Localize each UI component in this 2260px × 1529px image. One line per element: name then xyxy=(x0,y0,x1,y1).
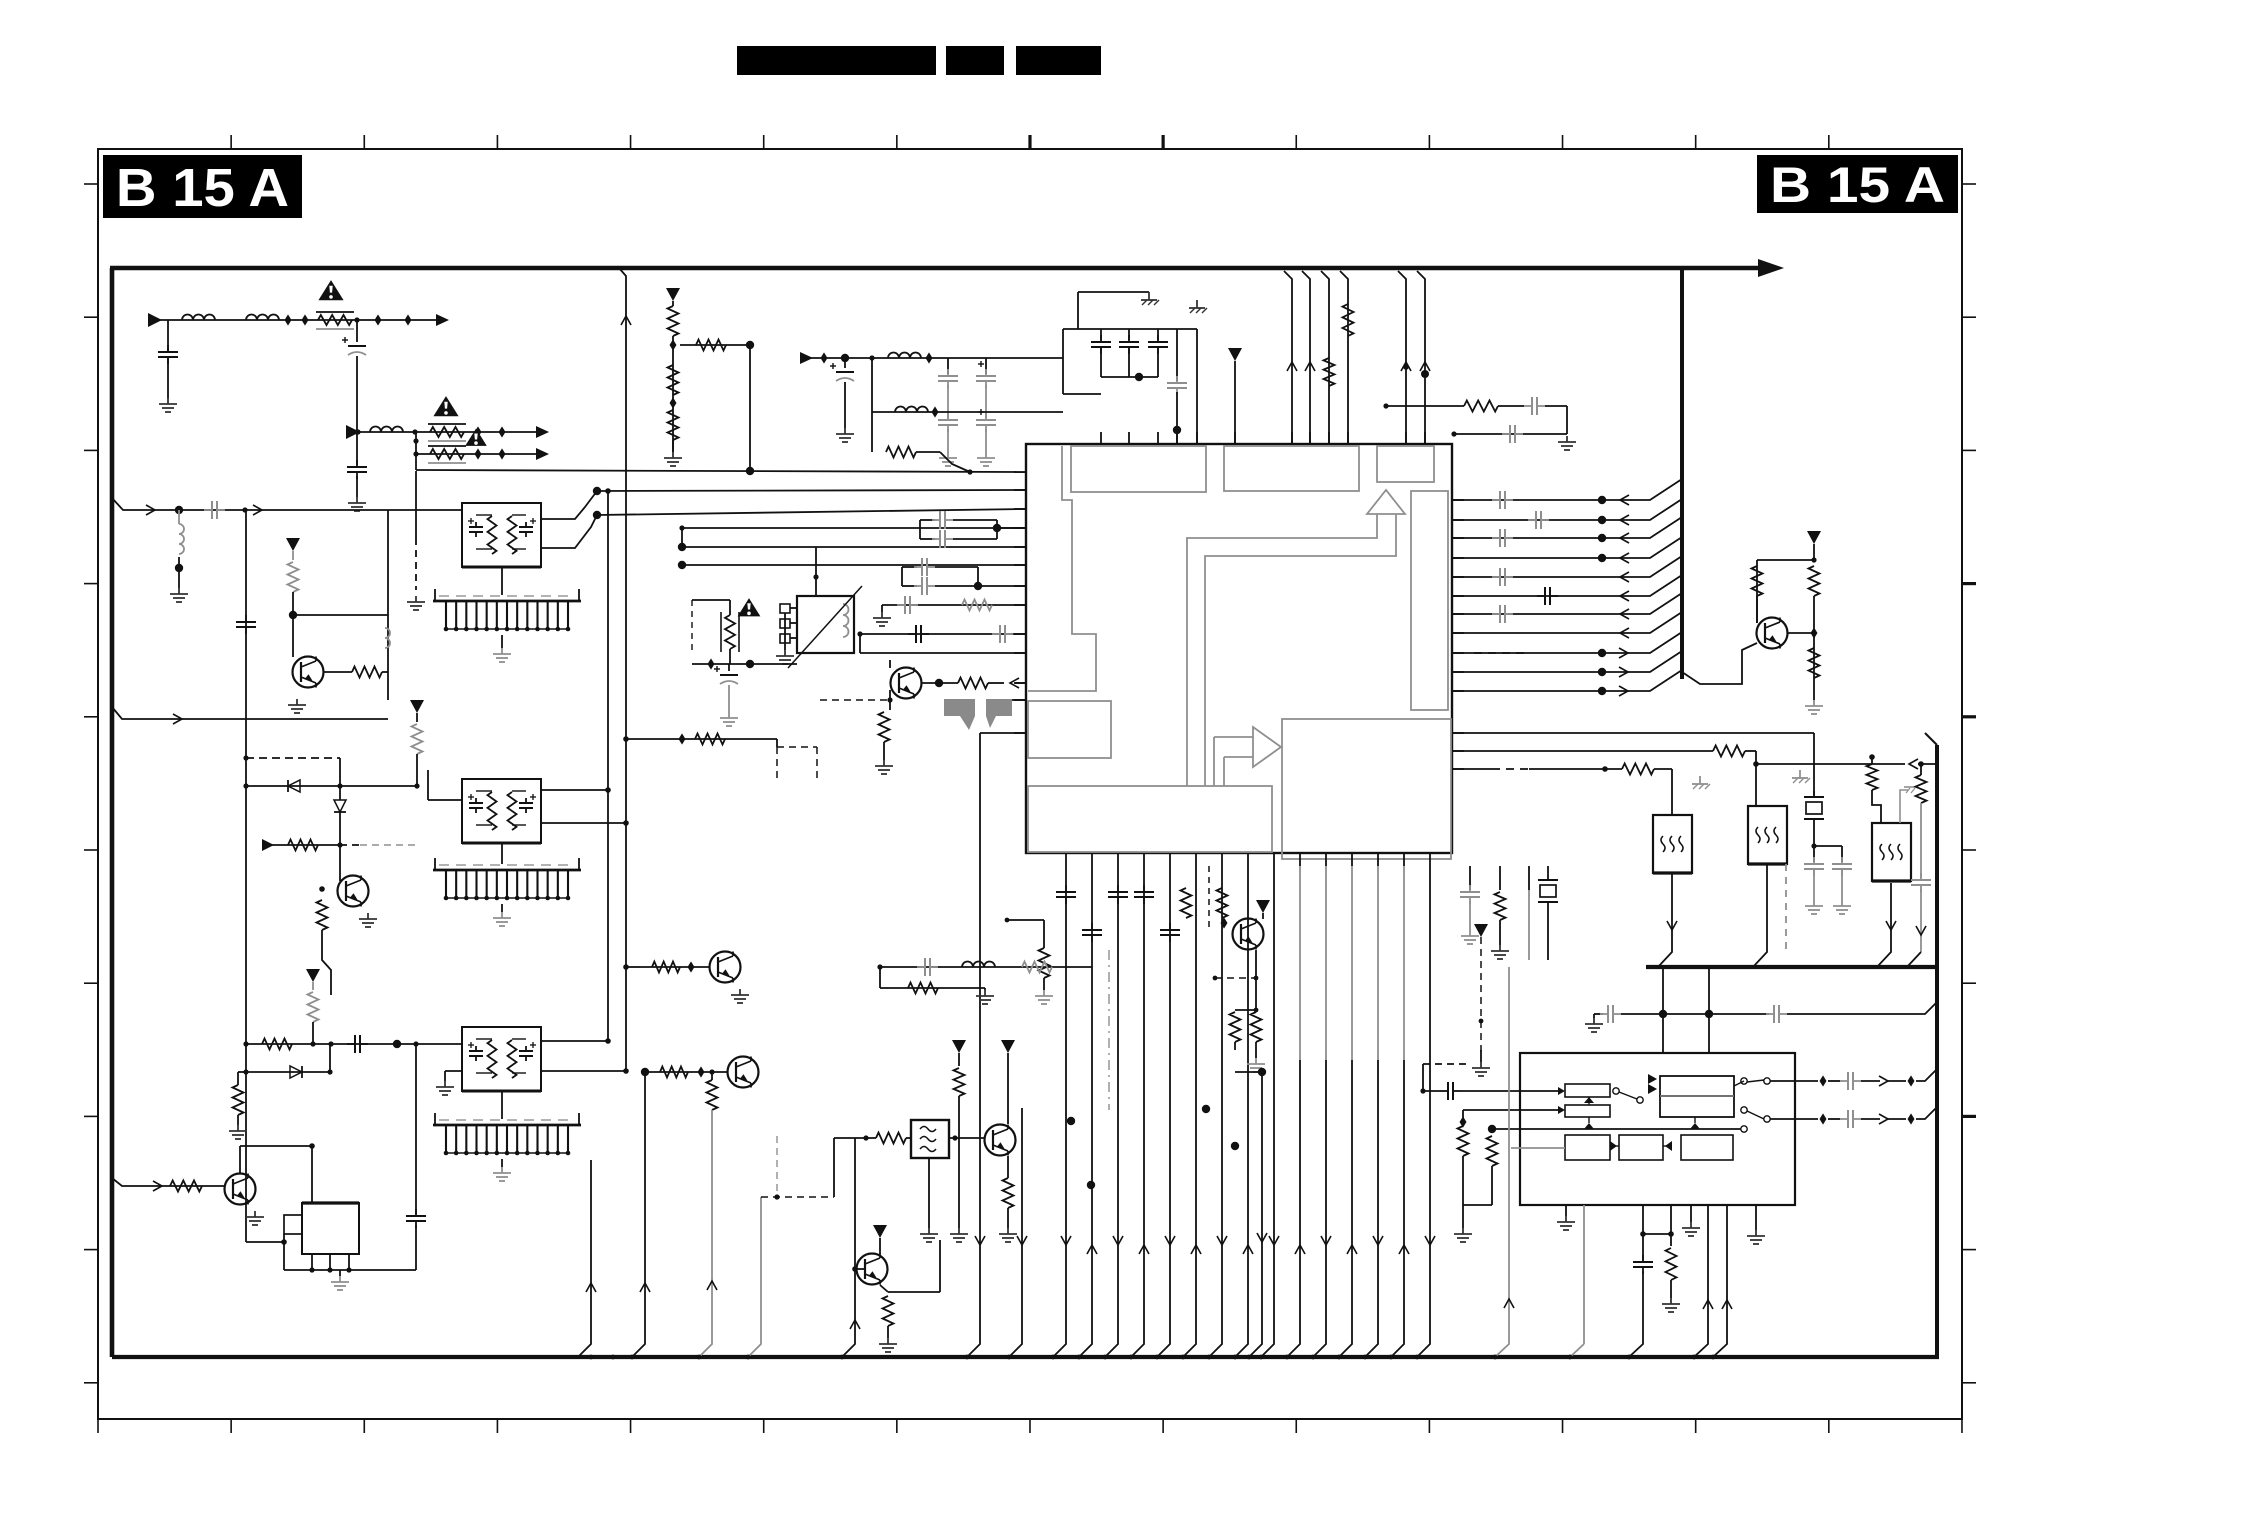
wire xyxy=(728,685,730,712)
wire xyxy=(1610,1145,1619,1147)
wire xyxy=(872,411,1063,413)
signal arrow xyxy=(153,1181,162,1191)
wire xyxy=(329,1254,331,1270)
wire xyxy=(476,790,492,792)
safety warning triangle xyxy=(465,429,487,446)
junction xyxy=(709,1069,714,1074)
wire xyxy=(860,652,1026,654)
ferrite bead junction xyxy=(1221,917,1228,928)
signal arrow xyxy=(975,1236,985,1245)
junction xyxy=(1077,1355,1082,1360)
wire xyxy=(696,340,726,351)
wire xyxy=(1452,517,1682,538)
wire xyxy=(1528,890,1530,960)
wire xyxy=(888,1291,940,1293)
junction xyxy=(327,1069,332,1074)
capacitor C50 xyxy=(914,585,922,587)
signal arrow xyxy=(1879,1114,1888,1124)
signal arrow xyxy=(1619,667,1628,677)
junction xyxy=(328,1041,333,1046)
wire xyxy=(1321,271,1329,444)
transistor Q2 xyxy=(1233,919,1264,950)
wire xyxy=(895,407,928,412)
wire xyxy=(1469,901,1471,930)
wire xyxy=(1452,768,1492,770)
wire xyxy=(790,622,797,624)
fusible resistor R5 xyxy=(430,449,464,459)
junction node xyxy=(289,611,297,619)
ferrite bead junction xyxy=(1820,1113,1827,1124)
wire xyxy=(1906,788,1910,793)
wire xyxy=(1770,1080,1818,1082)
capacitor C18 xyxy=(1492,576,1500,578)
wire xyxy=(1377,866,1379,1060)
wire xyxy=(695,734,725,745)
ferrite bead junction xyxy=(1811,627,1818,638)
ferrite bead junction xyxy=(1460,1116,1467,1127)
ferrite bead junction xyxy=(670,397,677,408)
wire xyxy=(815,547,817,577)
wire xyxy=(985,429,987,452)
wire xyxy=(939,1240,941,1292)
wire xyxy=(292,592,294,657)
wire xyxy=(935,585,978,587)
wire xyxy=(844,358,846,368)
wire xyxy=(1492,768,1529,770)
wire xyxy=(1492,1128,1741,1130)
wire xyxy=(1867,764,1878,790)
junction node xyxy=(1488,1125,1496,1133)
wire xyxy=(879,1238,881,1254)
capacitor C12 xyxy=(1176,376,1178,383)
wire xyxy=(1925,733,1937,745)
junction xyxy=(679,525,684,530)
signal arrow xyxy=(1620,572,1629,582)
wire xyxy=(1788,632,1814,634)
wire xyxy=(692,599,730,601)
junction xyxy=(243,1041,248,1046)
wire xyxy=(1208,866,1210,930)
capacitor C44 xyxy=(347,1043,355,1045)
connector comb J1 xyxy=(439,595,575,597)
junction xyxy=(1213,976,1218,981)
junction xyxy=(1129,1355,1134,1360)
wire xyxy=(1566,406,1568,434)
junction xyxy=(813,574,818,579)
capacitor C16 xyxy=(1528,519,1536,521)
capacitor C42 xyxy=(525,1046,527,1051)
wire xyxy=(1053,866,1066,1357)
signal arrow xyxy=(850,1320,860,1329)
ferrite bead junction xyxy=(926,352,933,363)
wire xyxy=(578,1160,591,1357)
wire xyxy=(1235,1071,1262,1073)
wire xyxy=(1666,1248,1677,1280)
wire xyxy=(233,1085,244,1115)
wire xyxy=(640,966,710,968)
signal arrow xyxy=(1321,1236,1331,1245)
box xyxy=(302,1203,359,1254)
wire xyxy=(1209,866,1222,1357)
junction xyxy=(863,1135,868,1140)
junction node xyxy=(746,341,754,349)
wire xyxy=(262,1039,292,1050)
wire xyxy=(112,1355,1939,1359)
wire xyxy=(322,930,331,995)
wire xyxy=(1299,866,1301,1060)
wire xyxy=(1529,768,1622,770)
ground xyxy=(178,588,180,594)
wire xyxy=(729,649,731,664)
wire xyxy=(1682,266,1760,271)
signal arrow xyxy=(1620,609,1629,619)
wire xyxy=(626,738,777,740)
wire xyxy=(711,1072,713,1080)
wire xyxy=(1708,1014,1710,1053)
junction xyxy=(1811,557,1816,562)
wire xyxy=(692,663,797,665)
wire xyxy=(1007,919,1044,921)
wire xyxy=(682,546,1026,548)
wire xyxy=(512,514,526,516)
ground xyxy=(415,596,417,602)
junction xyxy=(1207,1355,1212,1360)
ceramic resonator U3 xyxy=(1872,823,1911,881)
wire xyxy=(170,1181,202,1192)
wire xyxy=(1230,1012,1241,1042)
junction xyxy=(1259,1355,1264,1360)
junction xyxy=(1337,1355,1342,1360)
arrow xyxy=(148,313,162,327)
wire xyxy=(978,363,984,365)
wire xyxy=(541,822,626,824)
wire xyxy=(978,411,984,413)
wire xyxy=(597,509,1026,515)
wire xyxy=(1462,1110,1464,1122)
junction node xyxy=(993,524,1001,532)
wire xyxy=(1452,651,1682,672)
junction xyxy=(310,1041,315,1046)
wire xyxy=(1249,1072,1262,1357)
wire xyxy=(112,707,388,719)
wire xyxy=(238,1071,246,1073)
wire xyxy=(237,1115,239,1125)
wire xyxy=(1670,1205,1672,1246)
wire xyxy=(962,600,992,611)
arrow xyxy=(262,839,274,851)
wire xyxy=(1452,556,1682,577)
junction node xyxy=(1258,1068,1266,1076)
junction xyxy=(605,1038,611,1044)
wire xyxy=(1753,864,1767,967)
junction xyxy=(697,1355,702,1360)
wire xyxy=(1108,950,1110,1110)
wire xyxy=(512,824,526,826)
capacitor C51 xyxy=(897,604,905,606)
transistor Q3 xyxy=(293,657,324,688)
ground xyxy=(784,650,786,656)
wire xyxy=(1007,1208,1009,1228)
ground xyxy=(1593,1018,1595,1024)
wire xyxy=(788,586,862,668)
wire xyxy=(1861,1080,1880,1082)
wire xyxy=(887,1326,889,1338)
wire xyxy=(880,987,985,989)
wire xyxy=(680,344,750,346)
wire xyxy=(178,510,180,524)
junction node xyxy=(1598,649,1606,657)
wire xyxy=(777,746,817,748)
ground xyxy=(444,1081,446,1087)
wire xyxy=(1458,1126,1469,1156)
wire xyxy=(1646,965,1937,969)
wire xyxy=(876,1133,906,1144)
junction xyxy=(623,1068,629,1074)
wire xyxy=(428,799,462,801)
capacitor C49 xyxy=(914,566,922,568)
wire xyxy=(541,491,597,519)
junction xyxy=(281,1239,287,1245)
ground xyxy=(1670,1298,1672,1304)
wire xyxy=(947,358,949,374)
wire xyxy=(360,844,417,846)
wire xyxy=(980,361,982,367)
wire xyxy=(239,1146,241,1173)
ferrite bead junction xyxy=(375,314,382,325)
wire xyxy=(1235,866,1248,1357)
wire xyxy=(265,844,340,846)
junction xyxy=(1005,918,1010,923)
wire xyxy=(1491,1166,1493,1205)
wire xyxy=(1452,670,1682,691)
wire xyxy=(1255,950,1257,1010)
wire xyxy=(415,1225,417,1270)
wire xyxy=(1452,750,1713,752)
ground xyxy=(1480,1062,1482,1068)
wire xyxy=(1658,873,1672,967)
wire xyxy=(339,1270,341,1276)
signal arrow xyxy=(1620,553,1629,563)
wire xyxy=(816,747,818,780)
ground xyxy=(1469,930,1471,936)
signal arrow xyxy=(1269,1236,1279,1245)
wire xyxy=(1403,866,1405,1060)
ground xyxy=(339,1276,341,1282)
wire xyxy=(1593,1014,1595,1018)
wire xyxy=(1480,937,1482,1052)
junction xyxy=(1753,761,1759,767)
signal arrow xyxy=(1373,1236,1383,1245)
junction xyxy=(1918,761,1924,767)
signal arrow xyxy=(1257,1233,1267,1242)
capacitor C13 xyxy=(1524,405,1532,407)
wire xyxy=(1234,1042,1236,1050)
wire xyxy=(1747,1111,1764,1119)
wire xyxy=(476,1072,492,1074)
junction xyxy=(327,1267,332,1272)
junction xyxy=(337,842,342,847)
wire xyxy=(1545,405,1567,407)
wire xyxy=(245,510,247,1242)
fusible resistor R3 xyxy=(430,427,464,437)
junction xyxy=(1602,766,1608,772)
ground xyxy=(501,1167,503,1173)
polarized capacitor C2 xyxy=(348,345,366,347)
wire xyxy=(339,758,341,786)
wire xyxy=(980,732,1026,734)
junction xyxy=(1383,403,1388,408)
box xyxy=(1565,1084,1610,1097)
ground xyxy=(984,990,986,996)
wire xyxy=(1015,682,1026,684)
ground xyxy=(356,497,358,503)
signal arrow xyxy=(1916,926,1926,935)
wire xyxy=(928,1158,930,1228)
ground xyxy=(881,612,883,618)
wire xyxy=(387,510,389,615)
page code label B 15 A xyxy=(1757,155,1958,213)
wire xyxy=(784,613,786,650)
ground xyxy=(1755,1230,1757,1236)
wire xyxy=(871,358,873,412)
wire xyxy=(1422,1064,1424,1091)
wire xyxy=(1662,1014,1664,1053)
capacitor C10 xyxy=(1128,335,1130,342)
wire xyxy=(997,527,1026,529)
wire xyxy=(501,843,503,864)
wire xyxy=(1012,699,1026,701)
wire xyxy=(1351,866,1353,1060)
wire xyxy=(882,604,1026,606)
wire xyxy=(729,600,731,615)
wire xyxy=(387,615,389,700)
ground xyxy=(844,428,846,434)
wire xyxy=(1680,266,1684,679)
wire xyxy=(1181,888,1192,918)
wire xyxy=(953,538,997,540)
wire xyxy=(871,412,873,452)
signal arrow xyxy=(173,714,182,724)
arrow xyxy=(536,448,549,460)
wire xyxy=(1594,1013,1603,1015)
ground xyxy=(985,452,987,458)
wire xyxy=(501,635,503,648)
wire xyxy=(626,966,640,968)
wire xyxy=(348,1254,350,1270)
wire xyxy=(682,564,1026,566)
wire xyxy=(1498,405,1524,407)
wire xyxy=(947,429,949,452)
wire xyxy=(776,747,778,780)
transistor Q9 xyxy=(985,1125,1016,1156)
wire xyxy=(619,268,626,1071)
wire xyxy=(530,520,536,522)
wire xyxy=(1813,869,1815,900)
signal arrow xyxy=(1620,628,1629,638)
wire xyxy=(1217,888,1228,918)
supply rail marker xyxy=(410,700,424,713)
capacitor C45 xyxy=(415,1209,417,1216)
junction node xyxy=(678,543,686,551)
box xyxy=(797,596,854,653)
junction xyxy=(746,1355,751,1360)
wire xyxy=(1713,1205,1727,1357)
wire xyxy=(1756,618,1758,623)
wire xyxy=(356,356,358,465)
wire xyxy=(416,713,418,722)
junction xyxy=(623,964,629,970)
wire xyxy=(1340,271,1348,444)
supply rail marker xyxy=(1228,348,1242,361)
wire xyxy=(468,520,474,522)
wire xyxy=(1452,575,1682,596)
wire xyxy=(820,699,890,701)
ground xyxy=(1566,436,1568,442)
signal arrow xyxy=(1347,1245,1357,1254)
wire xyxy=(648,1071,728,1073)
wire xyxy=(1588,1097,1590,1105)
ferrite bead junction xyxy=(302,314,309,325)
junction node xyxy=(678,561,686,569)
box xyxy=(1565,1105,1610,1117)
wire xyxy=(1813,733,1815,795)
wire xyxy=(352,667,382,678)
wire xyxy=(317,900,328,930)
wire xyxy=(416,754,418,786)
wire xyxy=(246,1043,462,1045)
wire xyxy=(935,566,978,568)
wire xyxy=(1454,433,1567,435)
junction node xyxy=(1087,1181,1095,1189)
wire xyxy=(1255,1042,1257,1058)
junction xyxy=(1869,754,1875,760)
junction xyxy=(242,507,247,512)
wire xyxy=(1063,328,1197,330)
wire xyxy=(476,824,492,826)
wire xyxy=(1039,948,1050,978)
junction xyxy=(414,783,419,788)
transistor Q7 xyxy=(710,952,741,983)
wire xyxy=(1452,479,1682,500)
wire xyxy=(1671,769,1673,815)
wire xyxy=(906,1137,911,1139)
wire xyxy=(985,385,987,418)
wire xyxy=(1417,866,1430,1357)
wire xyxy=(902,566,917,568)
wire xyxy=(356,320,358,342)
wire xyxy=(1423,1063,1470,1065)
IF filter module U4 xyxy=(462,503,541,567)
junction node xyxy=(1705,1010,1713,1018)
ferrite bead junction xyxy=(932,406,939,417)
wire xyxy=(790,637,797,639)
transistor Q1 xyxy=(1757,618,1788,649)
supply rail marker xyxy=(1474,924,1488,937)
wire xyxy=(308,992,319,1022)
signal arrow xyxy=(1909,759,1918,769)
wire xyxy=(707,1080,718,1110)
junction node xyxy=(746,467,754,475)
wire xyxy=(1809,566,1820,596)
arrow xyxy=(1758,259,1784,277)
wire xyxy=(1935,745,1939,1357)
junction xyxy=(1403,364,1409,370)
wire xyxy=(1078,291,1149,293)
wire xyxy=(1343,304,1354,336)
junction node xyxy=(641,1068,649,1076)
transistor Q10 xyxy=(857,1254,888,1285)
signal arrow xyxy=(1305,362,1315,371)
